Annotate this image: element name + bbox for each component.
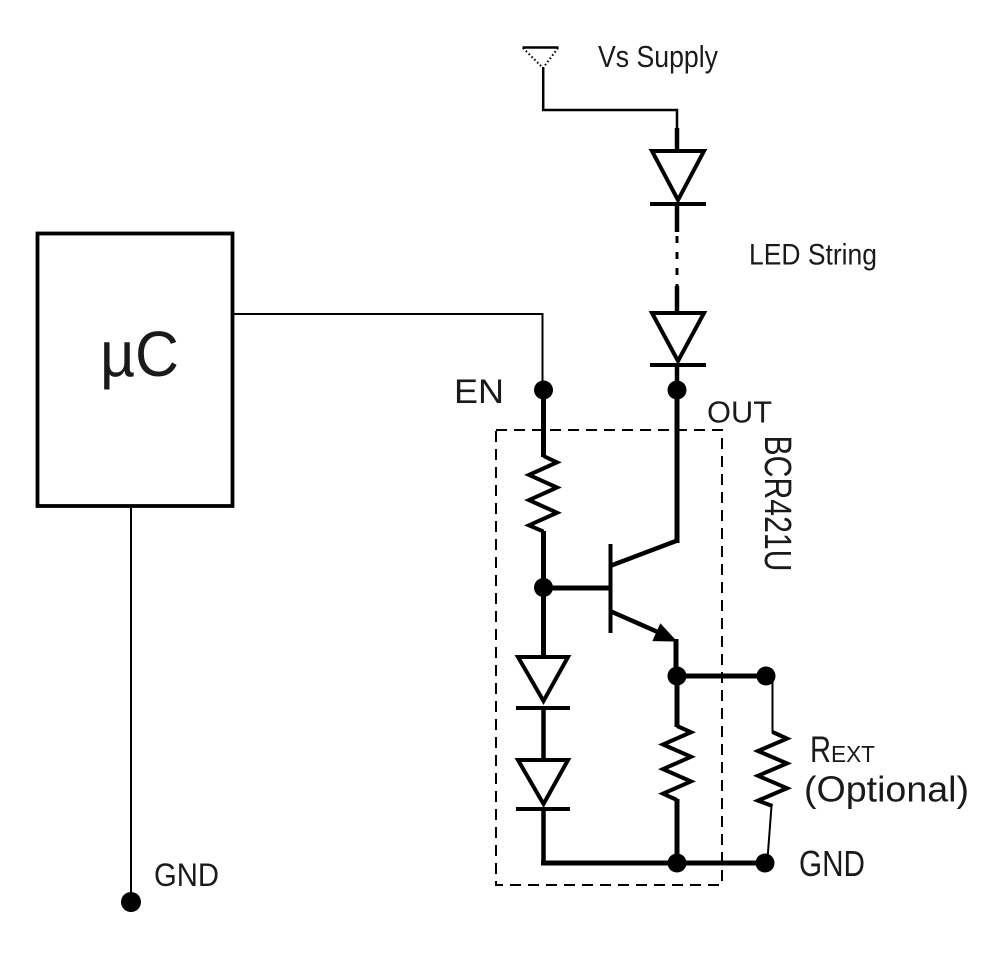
IC boundary BCR421U (dashed box) (496, 430, 722, 885)
transistor Q1 collector diagonal (610, 541, 676, 566)
diode D1 (516, 657, 570, 708)
wire R2 to bottom rail (675, 799, 680, 863)
svg-text:Vs Supply: Vs Supply (598, 39, 718, 74)
wire uC to GND (130, 508, 132, 902)
wire REXT top (772, 681, 774, 733)
wire LED anode stub (675, 128, 680, 152)
node REXT top (757, 667, 776, 686)
svg-text:OUT: OUT (707, 395, 772, 430)
wire collector vertical (OUT to Q1) (675, 390, 680, 543)
transistor Q1 emitter diagonal (610, 611, 660, 633)
svg-text:(Optional): (Optional) (804, 769, 969, 810)
wire base node to D1 (541, 587, 546, 658)
wire D_L2 to OUT node (675, 365, 680, 390)
wire dashed LED-string continuation (676, 236, 679, 288)
node OUT (668, 381, 687, 400)
wire emitter to node (674, 639, 679, 676)
wire REXT bottom (768, 806, 772, 859)
wire EN node into box (541, 390, 546, 457)
wire supply to LED branch (543, 67, 677, 140)
wire base node to transistor base (544, 586, 613, 591)
resistor R1 (base resistor) (529, 456, 557, 532)
transistor Q1 emitter arrowhead (653, 624, 676, 641)
resistor REXT (758, 732, 787, 806)
node GND (uC) (121, 892, 141, 912)
svg-text:µC: µC (100, 318, 179, 390)
wire D2 to bottom rail (541, 809, 546, 866)
svg-text:LED String: LED String (749, 239, 877, 272)
svg-text:GND: GND (154, 857, 219, 893)
wire emitter node to REXT branch (677, 674, 766, 679)
wire bottom rail (541, 861, 764, 866)
wire uC to EN (horizontal) (233, 313, 544, 315)
node base (534, 578, 553, 597)
wire emitter node to internal resistor (675, 676, 680, 727)
wire below D_L1 (675, 204, 680, 232)
wire down to EN node (542, 313, 544, 390)
transistor Q1 (NPN) base bar (609, 544, 613, 633)
node bottom (R2/rail) (668, 854, 687, 873)
svg-text:EN: EN (454, 373, 504, 411)
svg-text:GND: GND (799, 843, 865, 884)
wire D1 to D2 (541, 708, 546, 761)
diode D2 (516, 760, 570, 809)
LED D_L1 (650, 151, 706, 204)
wire R1 to base node (541, 531, 546, 588)
resistor R2 (internal sense) (663, 726, 691, 800)
wire above D_L2 (675, 286, 680, 314)
supply symbol (Vs) (523, 48, 559, 69)
LED D_L2 (650, 313, 706, 365)
node REXT bottom (756, 854, 775, 873)
svg-text:BCR421U: BCR421U (756, 436, 798, 572)
node emitter (668, 667, 687, 686)
node EN (534, 381, 553, 400)
box uC (38, 234, 233, 507)
